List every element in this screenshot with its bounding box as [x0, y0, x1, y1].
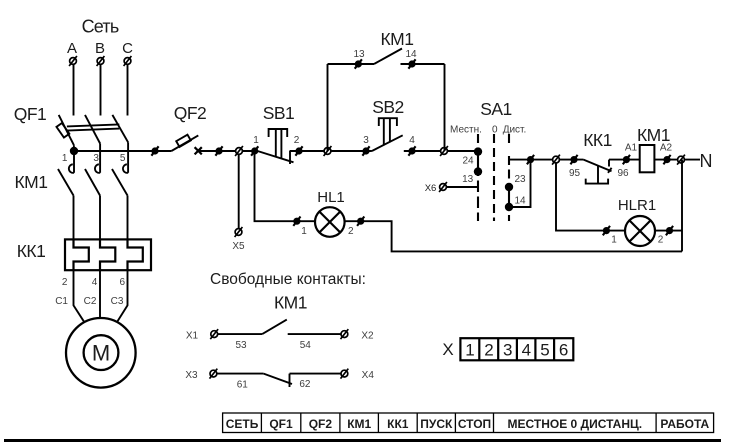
terminal HLR1 tap — [552, 155, 560, 165]
svg-text:6: 6 — [559, 341, 568, 360]
svg-text:1: 1 — [301, 226, 307, 237]
svg-text:QF2: QF2 — [174, 103, 207, 123]
lamp HL1 — [315, 207, 345, 237]
coil KM1 — [640, 145, 655, 172]
svg-text:СТОП: СТОП — [458, 417, 491, 431]
wire KM1 branch left top — [328, 63, 375, 65]
breaker QF1 release box — [56, 123, 69, 137]
svg-text:HL1: HL1 — [317, 189, 345, 206]
svg-text:КК1: КК1 — [583, 130, 612, 150]
svg-text:13: 13 — [462, 174, 474, 185]
wire HL1 branch from node 1 — [255, 151, 297, 221]
legend table — [223, 413, 714, 433]
hook seat pole 2 — [95, 164, 100, 173]
svg-text:Х: Х — [442, 340, 453, 359]
svg-text:14: 14 — [514, 196, 526, 207]
svg-text:В: В — [95, 40, 105, 57]
terminal X5 tap point — [235, 146, 243, 156]
wire lamp HLR1 to riser — [655, 230, 682, 232]
breaker QF1 pole 1 blade — [59, 115, 74, 145]
svg-text:М: М — [92, 341, 110, 366]
svg-text:1: 1 — [611, 235, 617, 246]
button SB1 seat — [289, 151, 291, 165]
terminal 96/A1 — [623, 155, 630, 164]
svg-text:Дист.: Дист. — [503, 125, 527, 136]
svg-text:Х4: Х4 — [362, 370, 375, 381]
node QF1 output junction — [70, 147, 78, 155]
button SB2 blade (NO) — [372, 135, 403, 151]
contact KK1 seat — [608, 160, 610, 167]
wire pole3 blade to KK1 — [127, 196, 129, 240]
contact KK1 blade (NC) — [584, 160, 612, 172]
svg-text:62: 62 — [299, 379, 311, 390]
wire X6 to SA1 — [447, 186, 478, 188]
wire to lamp HLR1 — [606, 230, 625, 232]
wire KM1 branch right top — [401, 63, 445, 65]
terminal X1 — [210, 329, 218, 339]
terminal HL1 1 — [293, 217, 300, 226]
terminal N side — [677, 155, 685, 165]
wire contact 62 to X4 — [290, 373, 341, 375]
svg-text:РАБОТА: РАБОТА — [660, 417, 709, 431]
contact dot 23 — [505, 183, 513, 191]
wire pole1 blade to KK1 — [73, 196, 75, 240]
motor M outer circle — [66, 318, 136, 388]
svg-text:95: 95 — [569, 168, 581, 179]
terminal strip box — [460, 338, 573, 360]
thermal relay KK1 box — [65, 239, 151, 270]
terminal phase B — [97, 56, 105, 66]
breaker QF1 pole 3 blade — [112, 115, 128, 142]
wire N riser — [681, 160, 683, 252]
contactor KM1 pole 1 blade — [58, 169, 74, 196]
contact 61-62 seat — [289, 374, 291, 387]
heater element phase 3 — [128, 239, 143, 270]
terminal after QF2 — [215, 146, 222, 155]
terminal KM1-13 tap — [324, 146, 332, 156]
terminal X5 — [235, 227, 243, 237]
terminal phase A — [69, 56, 77, 66]
wire QF2 to SB1 — [198, 150, 257, 152]
svg-text:4: 4 — [92, 277, 98, 288]
svg-text:ПУСК: ПУСК — [420, 417, 453, 431]
wire KK1 to coil — [609, 159, 640, 161]
svg-text:Местн.: Местн. — [450, 125, 482, 136]
wire down to X5 — [238, 155, 240, 229]
button SB2 actuator staple — [379, 118, 397, 126]
svg-text:А2: А2 — [660, 143, 673, 154]
svg-text:N: N — [700, 151, 713, 171]
terminal 95 — [570, 155, 577, 164]
terminal X4 — [341, 369, 349, 379]
svg-text:5: 5 — [540, 341, 549, 360]
terminal SB2 3 — [362, 146, 369, 155]
button SB1 actuator staple — [269, 129, 288, 137]
svg-text:Х1: Х1 — [186, 331, 199, 342]
svg-text:53: 53 — [235, 340, 247, 351]
breaker QF1 linkage bar upper — [67, 124, 119, 126]
button SB1 actuator stem left — [275, 129, 277, 157]
button SB2 actuator stem right — [389, 118, 391, 142]
terminal X2 — [341, 329, 349, 339]
svg-text:А: А — [67, 40, 77, 57]
svg-text:1: 1 — [465, 341, 474, 360]
wire 14 to riser — [509, 160, 531, 207]
terminal SB2 4 — [408, 146, 415, 155]
svg-text:КК1: КК1 — [17, 241, 46, 261]
svg-text:4: 4 — [522, 341, 531, 360]
svg-text:Х3: Х3 — [185, 370, 198, 381]
lamp HLR1 — [625, 216, 655, 246]
wire HLR1 branch left — [556, 163, 606, 231]
svg-text:3: 3 — [363, 135, 369, 146]
svg-text:КК1: КК1 — [387, 417, 409, 431]
heater element phase 1 — [74, 239, 89, 270]
wire pole1 node down — [73, 151, 75, 173]
wire SA1 to KK1 contact — [509, 159, 584, 161]
contact 53-54 blade (NO) — [262, 320, 287, 335]
svg-text:2: 2 — [484, 341, 493, 360]
contact dot 14 — [505, 203, 513, 211]
wire KM1-14 branch down — [444, 64, 446, 151]
breaker QF1 pole 2 blade — [85, 115, 100, 144]
svg-text:5: 5 — [120, 153, 126, 164]
terminal 13 — [355, 59, 362, 68]
button SB1 blade (NC) — [258, 151, 294, 162]
motor M inner circle — [84, 335, 119, 370]
svg-text:А1: А1 — [625, 143, 638, 154]
svg-text:14: 14 — [405, 49, 417, 60]
heater element phase 2 — [100, 239, 115, 270]
svg-text:2: 2 — [658, 235, 664, 246]
svg-text:С: С — [122, 40, 133, 57]
svg-text:HLR1: HLR1 — [618, 197, 656, 214]
terminal HL1 2 — [357, 217, 364, 226]
svg-text:61: 61 — [237, 380, 249, 391]
svg-text:13: 13 — [353, 49, 365, 60]
svg-text:КМ1: КМ1 — [274, 293, 307, 313]
wire pole1 to node — [73, 145, 75, 150]
hook seat pole 1 — [69, 164, 74, 173]
svg-text:1: 1 — [253, 135, 259, 146]
wire phase C down — [127, 65, 129, 116]
svg-text:24: 24 — [462, 156, 474, 167]
svg-text:С3: С3 — [111, 296, 124, 307]
terminal X6 — [439, 182, 447, 192]
wire pole3 down across line — [127, 142, 129, 173]
svg-text:SB2: SB2 — [372, 97, 404, 117]
svg-text:QF1: QF1 — [14, 104, 47, 124]
svg-text:QF2: QF2 — [309, 417, 333, 431]
wire X1 to contact 53 — [218, 333, 262, 335]
wire SB2 to SA1 — [404, 150, 478, 152]
svg-text:54: 54 — [300, 340, 312, 351]
contactor KM1 pole 3 blade — [112, 169, 128, 196]
switch SA1 position line Местн. — [477, 134, 479, 221]
svg-text:КМ1: КМ1 — [14, 172, 47, 192]
terminal riser top — [527, 155, 534, 164]
contact 61-62 blade (NC) — [264, 374, 292, 384]
svg-text:С1: С1 — [55, 296, 68, 307]
wire KM1-13 branch up — [327, 64, 329, 151]
contact KM1 13-14 blade — [374, 49, 402, 65]
bottom rule — [4, 439, 721, 442]
cross mark after QF2 — [195, 147, 202, 154]
svg-text:КМ1: КМ1 — [380, 29, 413, 49]
svg-text:SB1: SB1 — [263, 103, 295, 123]
wire phase A down — [73, 65, 75, 116]
wire lamp HL1 to corner — [345, 221, 682, 251]
svg-text:QF1: QF1 — [269, 417, 293, 431]
contactor KM1 pole 2 blade — [85, 169, 100, 196]
wire SB1 to SB2 — [290, 150, 372, 152]
svg-text:6: 6 — [120, 277, 126, 288]
contact dot 13 — [474, 167, 482, 175]
terminal phase C — [124, 56, 132, 66]
svg-text:С2: С2 — [84, 296, 97, 307]
hook seat pole 3 — [123, 164, 128, 173]
svg-text:1: 1 — [62, 153, 68, 164]
terminal before QF2 — [151, 146, 158, 155]
wire contact 54 to X2 — [288, 333, 341, 335]
breaker QF2 release box — [176, 135, 191, 147]
thermal actuator bracket — [586, 179, 608, 184]
svg-text:23: 23 — [514, 174, 526, 185]
wire phase B down — [100, 65, 102, 116]
svg-text:МЕСТНОЕ 0 ДИСТАНЦ.: МЕСТНОЕ 0 ДИСТАНЦ. — [508, 417, 643, 431]
terminal 14 — [408, 59, 415, 68]
terminal X3 — [210, 369, 218, 379]
terminal SB1 2 — [295, 146, 302, 155]
breaker QF2 blade — [171, 135, 198, 151]
breaker QF1 linkage bar lower — [67, 129, 119, 131]
button SB2 actuator stem left — [383, 118, 385, 145]
svg-text:3: 3 — [93, 153, 99, 164]
svg-text:96: 96 — [617, 168, 629, 179]
wire main line QF1 to QF2 — [74, 150, 171, 152]
svg-text:СЕТЬ: СЕТЬ — [226, 417, 259, 431]
terminal KM1-14 tap — [440, 146, 448, 156]
contact dot 24 — [474, 147, 482, 155]
wire to lamp HL1 — [297, 220, 315, 222]
switch SA1 position line Дист. — [508, 134, 510, 221]
wire X3 to contact 61 — [217, 373, 264, 375]
svg-text:2: 2 — [294, 135, 300, 146]
svg-text:4: 4 — [409, 135, 415, 146]
wire KK1 to motor phase 1 — [74, 270, 85, 322]
terminal A2 — [663, 155, 670, 164]
switch SA1 position line 0 — [493, 134, 495, 221]
wire pole2 down across line — [99, 144, 101, 173]
svg-text:Х5: Х5 — [232, 241, 245, 252]
wire KK1 to motor phase 3 — [117, 270, 127, 322]
terminal HLR1 2 — [666, 226, 673, 235]
svg-text:0: 0 — [492, 125, 498, 136]
wire pole2 blade to KK1 — [99, 196, 101, 240]
thermal actuator stem — [597, 166, 599, 184]
svg-text:2: 2 — [62, 277, 68, 288]
svg-text:КМ1: КМ1 — [347, 417, 371, 431]
terminal HLR1 1 — [603, 226, 610, 235]
svg-text:SA1: SA1 — [480, 99, 512, 119]
wire KK1 to motor phase 2 — [99, 270, 101, 318]
svg-text:Х2: Х2 — [361, 331, 374, 342]
node SB1 terminal 1 — [251, 146, 258, 155]
svg-text:Сеть: Сеть — [82, 17, 119, 37]
svg-text:3: 3 — [503, 341, 512, 360]
svg-text:Свободные контакты:: Свободные контакты: — [210, 271, 366, 288]
wire coil to N — [654, 159, 700, 161]
button SB1 actuator stem right — [280, 129, 282, 159]
svg-text:2: 2 — [348, 226, 354, 237]
svg-text:Х6: Х6 — [425, 183, 437, 194]
